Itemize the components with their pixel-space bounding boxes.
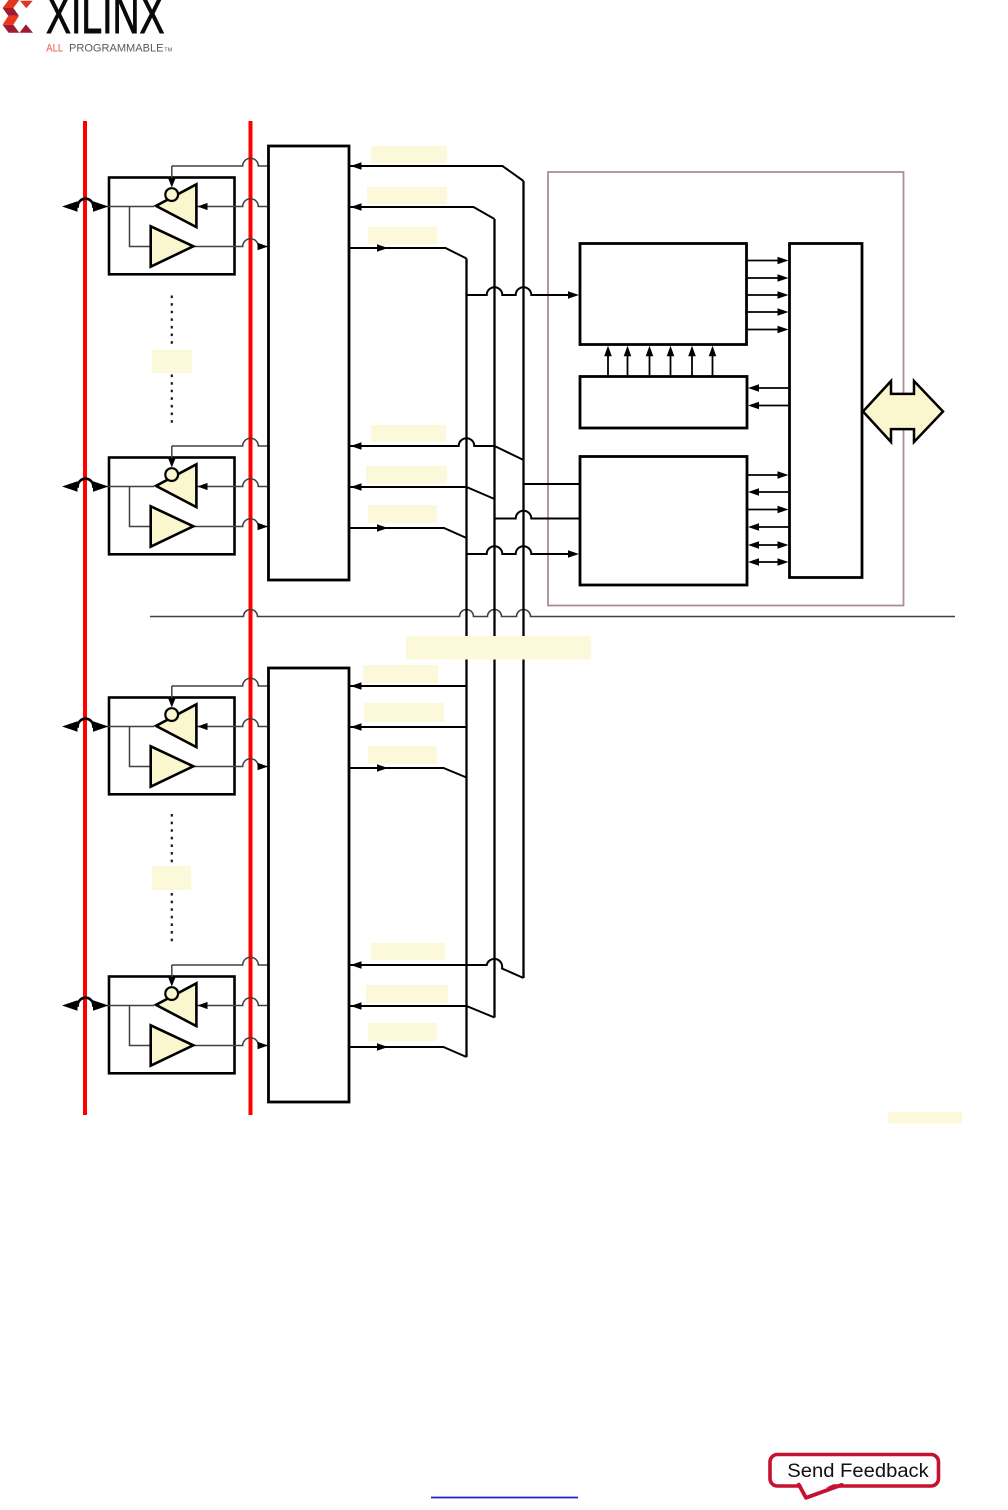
redacted label wire R6 (368, 505, 437, 523)
wire I4 (input data from buffer 4 to mux, hops red rail) (193, 1038, 268, 1046)
enable arrowhead into bubble 2 (168, 459, 175, 468)
wire OE4 (enable from mux to buffer 4, hops red rail) (172, 957, 269, 965)
svg-text:XILINX: XILINX (46, 0, 165, 45)
pin column rail 2 (red vertical line) (249, 121, 253, 1115)
input buffer 2 (triangle) (151, 506, 194, 546)
block B4 (interconnect) (790, 244, 863, 578)
wire O1 (output data into buffer 1, hops red rail) (197, 199, 269, 207)
wire H1 (bus1 tap to block B1, hops bus2+bus3) (467, 287, 569, 295)
wire pad2 (pad wire through buffer box 2) (107, 486, 154, 488)
bidirectional pad arrow 1 (77, 199, 95, 207)
hyperlink underline (431, 1497, 578, 1499)
svg-text:Send Feedback: Send Feedback (787, 1461, 929, 1482)
IOB buffer box 1 (109, 178, 235, 275)
arrows B2 to B1 (6 signals up) (604, 346, 716, 377)
wire branch3 (pad to input buffer branch) (130, 727, 151, 767)
redacted label wire R1 (371, 146, 447, 164)
redacted label wire R2 (367, 187, 447, 205)
dotted continuation (upper bank) (171, 296, 173, 424)
IOB buffer box 4 (109, 977, 235, 1074)
bus 1 (input net vertical) (465, 259, 467, 1058)
pin column rail 1 (red vertical line) (83, 121, 87, 1115)
input buffer 4 (triangle) (151, 1025, 194, 1065)
wire H2 (bus3 tap to block B3) (524, 483, 580, 485)
enable bubble 3 (165, 708, 178, 721)
enable bubble 2 (165, 468, 178, 481)
arrows B4 to B2 (2 signals) (748, 384, 790, 409)
redacted label wire R8 (364, 703, 444, 722)
EMIO interface block U2 (269, 668, 350, 1102)
tri-state output buffer 3 (inverting-enable triangle) (156, 704, 196, 747)
wire R4 (bus3 to U1 group2 enable, hops bus1) (349, 438, 524, 460)
enable arrowhead into bubble 4 (168, 978, 175, 987)
bus 2 (output net vertical) (493, 219, 495, 1018)
wire H4 (bus1 tap to block B3, hops bus2+bus3) (467, 546, 569, 554)
svg-text:TM: TM (164, 48, 172, 54)
svg-text:PROGRAMMABLE: PROGRAMMABLE (69, 43, 164, 55)
output-data arrowhead into buffer 3 (198, 723, 208, 730)
block B3 (EMIO routing logic) (580, 457, 747, 586)
svg-text:ALL: ALL (46, 43, 63, 55)
wire R8 (bus1 to U2 group3 output) (349, 726, 467, 728)
wire OE3 (enable from mux to buffer 3, hops red rail) (172, 678, 269, 686)
bus 3 (enable net vertical) (522, 181, 524, 978)
output-data arrowhead into buffer 4 (198, 1002, 208, 1009)
wire R10 (bus3 to U2 group4 enable, hops bus2) (349, 959, 524, 978)
dotted continuation (lower bank) (171, 814, 173, 943)
wire I3 (input data from buffer 3 to mux, hops red rail) (193, 759, 268, 767)
input-data arrowhead into mux 3 (258, 763, 269, 771)
wire branch4 (pad to input buffer branch) (130, 1006, 151, 1046)
wire branch1 (pad to input buffer branch) (130, 207, 151, 247)
redacted label bottom right (888, 1112, 962, 1124)
wire O2 (output data into buffer 2, hops red rail) (197, 479, 269, 487)
fat bidirectional interface arrow (863, 381, 943, 442)
tri-state output buffer 1 (inverting-enable triangle) (156, 184, 196, 227)
enable bubble 1 (165, 188, 178, 201)
wire pad4 (pad wire through buffer box 4) (107, 1005, 154, 1007)
redacted label wire R10 (371, 943, 445, 960)
enable bubble 4 (165, 987, 178, 1000)
MIO pin mux block U1 (269, 146, 350, 580)
tri-state output buffer 2 (inverting-enable triangle) (156, 464, 196, 507)
redacted label wire R5 (366, 466, 447, 484)
wire R12 (U2 group4 input to bus1) (349, 1047, 467, 1057)
section divider line with hops (150, 610, 955, 617)
Send Feedback button (770, 1455, 939, 1498)
wire R1 (bus3 to U1 group1 enable) (349, 166, 524, 181)
PS boundary box (pink) (548, 172, 904, 606)
redacted label wire R9 (368, 746, 437, 764)
redacted label (upper bank ellipsis) (152, 350, 192, 373)
wire OE1 (enable from mux to buffer 1, hops red rail) (172, 158, 269, 166)
wire I2 (input data from buffer 2 to mux, hops red rail) (193, 519, 268, 527)
Xilinx logo X mark (red/maroon ribbons) (3, 0, 33, 33)
wire pad1 (pad wire through buffer box 1) (107, 206, 154, 208)
input buffer 3 (triangle) (151, 746, 194, 786)
wire OE2 (enable from mux to buffer 2, hops red rail) (172, 438, 269, 446)
bidirectional pad arrow 2 (77, 479, 95, 487)
IOB buffer box 2 (109, 458, 235, 555)
wire R2 (bus2 to U1 group1 output) (349, 207, 495, 219)
redacted label wire R7 (363, 665, 438, 683)
wire R3 (U1 group1 input to bus1) (349, 248, 467, 259)
wire R6 (U1 group2 input to bus1) (349, 528, 467, 538)
IOB buffer box 3 (109, 698, 235, 795)
input-data arrowhead into mux 2 (258, 523, 269, 531)
redacted label wire R11 (366, 985, 448, 1003)
input-data arrowhead into mux 1 (258, 243, 269, 251)
wire I1 (input data from buffer 1 to mux, hops red rail) (193, 239, 268, 247)
redacted label wire R12 (368, 1023, 437, 1041)
bidirectional pad arrow 4 (77, 998, 95, 1006)
block B2 (control registers) (580, 377, 747, 429)
enable arrowhead into bubble 3 (168, 699, 175, 708)
redacted wide label above U2 (covers buses) (406, 636, 591, 660)
wire pad3 (pad wire through buffer box 3) (107, 726, 154, 728)
input-data arrowhead into mux 4 (258, 1042, 269, 1050)
wire O4 (output data into buffer 4, hops red rail) (197, 998, 269, 1006)
output-data arrowhead into buffer 2 (198, 483, 208, 490)
wire R7 (bus1 to U2 group3 enable) (349, 685, 467, 687)
block B1 (peripheral input logic) (580, 244, 747, 345)
arrows B3 to/from B4 (6 signals) (747, 471, 790, 566)
wire H3 (bus2 tap to block B3, hops bus3) (495, 511, 580, 519)
wire R11 (bus2 to U2 group4 output) (349, 1006, 495, 1018)
output-data arrowhead into buffer 1 (198, 203, 208, 210)
wire branch2 (pad to input buffer branch) (130, 487, 151, 527)
wire R5 (bus2 to U1 group2 output) (349, 487, 495, 499)
redacted label (lower bank ellipsis) (152, 866, 191, 890)
tri-state output buffer 4 (inverting-enable triangle) (156, 983, 196, 1026)
input buffer 1 (triangle) (151, 226, 194, 266)
redacted label wire R4 (371, 425, 446, 442)
wire O3 (output data into buffer 3, hops red rail) (197, 719, 269, 727)
redacted label wire R3 (368, 227, 437, 245)
bidirectional pad arrow 3 (77, 719, 95, 727)
enable arrowhead into bubble 1 (168, 179, 175, 188)
wire R9 (U2 group3 input to bus1) (349, 768, 467, 778)
arrows B1 to B4 (5 signals) (747, 257, 789, 334)
